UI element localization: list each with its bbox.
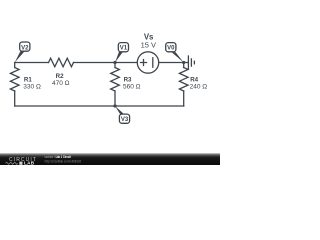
svg-text:560 Ω: 560 Ω bbox=[123, 84, 141, 91]
wire R3 bottom lead bbox=[114, 91, 116, 106]
svg-text:http://circuitlab.com/c4663d2: http://circuitlab.com/c4663d2 bbox=[45, 160, 82, 164]
label R1 value bbox=[23, 77, 41, 91]
voltage source Vs bbox=[137, 52, 158, 73]
svg-text:V2: V2 bbox=[21, 45, 29, 51]
label R3 value bbox=[123, 77, 141, 91]
footer title bbox=[45, 154, 72, 159]
svg-text:V0: V0 bbox=[167, 46, 175, 52]
svg-text:LAB: LAB bbox=[24, 161, 35, 165]
resistor R3 bbox=[111, 68, 120, 91]
resistor R2 bbox=[49, 58, 74, 67]
wire right rail bottom lead bbox=[183, 91, 185, 106]
wire top-middle segment bbox=[74, 62, 116, 64]
node V2 flag bbox=[15, 42, 30, 63]
wire source-to-V0 segment bbox=[159, 62, 184, 64]
node V0 junction dot bbox=[182, 61, 185, 64]
node V3 flag bbox=[115, 106, 130, 123]
node V1 flag bbox=[115, 43, 129, 63]
svg-text:240 Ω: 240 Ω bbox=[190, 84, 208, 91]
svg-text:330 Ω: 330 Ω bbox=[23, 84, 41, 91]
resistor R1 bbox=[10, 68, 19, 91]
wire R3 top lead bbox=[114, 63, 116, 68]
footer url bbox=[45, 160, 82, 164]
label R4 value bbox=[190, 77, 208, 91]
footer logo bbox=[6, 157, 37, 166]
footer bar bbox=[0, 153, 220, 165]
wire left rail bottom lead bbox=[14, 91, 16, 106]
svg-text:V1: V1 bbox=[120, 46, 128, 52]
label Vs value bbox=[141, 33, 156, 50]
node V3 junction dot bbox=[113, 104, 116, 107]
wire bottom left segment bbox=[15, 105, 115, 107]
node V1 junction dot bbox=[113, 61, 116, 64]
wire right rail top lead bbox=[183, 63, 185, 68]
node V0 flag bbox=[166, 43, 184, 63]
wire V1-to-source segment bbox=[115, 62, 137, 64]
wire bottom right segment bbox=[115, 105, 184, 107]
svg-text:470 Ω: 470 Ω bbox=[52, 80, 70, 87]
wire top-left segment bbox=[15, 62, 49, 64]
svg-text:15 V: 15 V bbox=[141, 40, 156, 49]
svg-text:V3: V3 bbox=[121, 117, 129, 123]
svg-text:kschuer / Lab 1 Circuit: kschuer / Lab 1 Circuit bbox=[45, 154, 72, 159]
resistor R4 bbox=[179, 68, 188, 91]
label R2 value bbox=[52, 73, 70, 87]
wire left rail top lead bbox=[14, 63, 16, 68]
ground bbox=[184, 56, 195, 69]
